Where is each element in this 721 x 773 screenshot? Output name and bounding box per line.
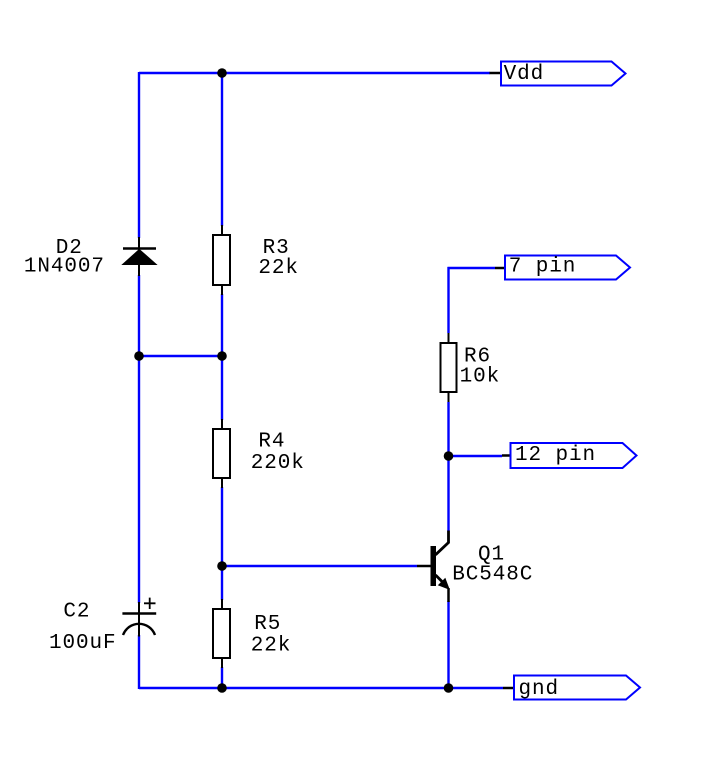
svg-text:22k: 22k [251, 634, 292, 657]
svg-text:22k: 22k [258, 257, 299, 280]
wire left vertical middle [138, 275, 140, 603]
wire base horizontal [222, 565, 417, 567]
resistor R6 10k [441, 333, 501, 402]
node junction mid link [217, 351, 227, 361]
capacitor C2 100uF [49, 598, 156, 656]
wire left vertical upper [138, 72, 140, 238]
wire top horizontal Vdd rail [139, 72, 490, 74]
wire 12pin horizontal [449, 455, 503, 457]
wire R6 bottom vertical [447, 402, 449, 531]
tag 12 pin [502, 443, 637, 468]
svg-text:10k: 10k [460, 365, 501, 388]
svg-text:Vdd: Vdd [504, 63, 545, 86]
wire 7pin horizontal [448, 267, 496, 269]
node junction base [217, 561, 227, 571]
svg-text:C2: C2 [63, 600, 90, 623]
diode D2 1N4007 [24, 237, 156, 279]
node junction 12pin [444, 451, 454, 461]
wire second column top [221, 72, 223, 226]
wire emitter to gnd [447, 601, 449, 689]
wire R6 top vertical [447, 267, 449, 333]
transistor Q1 BC548C [417, 531, 533, 603]
resistor R4 220k [213, 419, 305, 488]
node junction gnd R5 [217, 683, 227, 693]
svg-text:7 pin: 7 pin [509, 256, 577, 279]
svg-text:R4: R4 [258, 431, 285, 454]
svg-text:BC548C: BC548C [452, 564, 533, 587]
wire gnd horizontal [139, 687, 503, 689]
resistor R5 22k [213, 599, 291, 668]
node junction gnd emitter [444, 683, 454, 693]
svg-text:R5: R5 [254, 613, 281, 636]
svg-text:1N4007: 1N4007 [24, 256, 105, 279]
wire second column R4-R5 [221, 487, 223, 600]
tag Vdd [490, 62, 626, 86]
tag gnd [503, 676, 640, 702]
wire second column R5-gnd [221, 667, 223, 689]
wire left vertical lower [138, 635, 140, 689]
resistor R3 22k [213, 225, 299, 295]
svg-text:100uF: 100uF [49, 632, 117, 655]
wire second column R3-R4 [221, 294, 223, 420]
svg-text:220k: 220k [251, 452, 305, 475]
wire middle horizontal link [139, 355, 222, 357]
node junction at Vdd rail [217, 68, 227, 78]
tag 7 pin [495, 256, 630, 280]
svg-text:12 pin: 12 pin [515, 444, 596, 467]
node junction left mid [134, 351, 144, 361]
svg-text:gnd: gnd [519, 678, 560, 701]
